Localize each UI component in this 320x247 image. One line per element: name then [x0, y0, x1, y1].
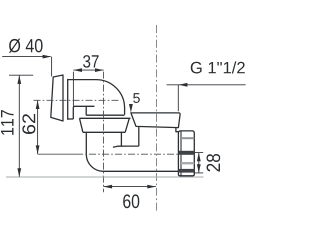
horizontal centerline of inlet pipe — [34, 99, 121, 101]
outlet nut bands — [179, 137, 195, 172]
dark band middle — [179, 151, 195, 155]
label 37 — [83, 55, 99, 68]
dim 117 extension + line — [9, 75, 33, 177]
elbow lower step profile — [73, 106, 94, 119]
dim 28 ticks + line — [194, 153, 203, 173]
vertical tube + bottom U-bend outer + bottom edge — [86, 132, 180, 171]
elbow step vertical — [85, 106, 87, 115]
arrowheads — [43, 55, 52, 59]
horizontal reference line (light) — [6, 176, 204, 178]
dim 60 line — [104, 186, 156, 188]
dim 5 leader — [130, 104, 132, 108]
gray band top — [181, 137, 194, 139]
outlet nut outline — [178, 131, 194, 176]
label 5 — [133, 93, 140, 103]
dim Ø40 leader — [2, 57, 51, 77]
inlet pipe top edge + elbow outer curve + elbow right edge — [68, 80, 125, 115]
union nut N1 (elbow nut) — [80, 118, 131, 132]
light band — [181, 162, 194, 164]
label 62 — [22, 114, 35, 134]
centerlines — [34, 72, 196, 193]
dark band lower — [179, 169, 195, 173]
vertical reference axis (light) — [156, 25, 158, 211]
vertical tube right edge — [120, 132, 122, 146]
dim 62 line — [37, 100, 39, 154]
outlet nut inner vertical — [180, 131, 182, 176]
outlet left cap line — [138, 127, 140, 146]
neck between cup and outlet nut — [176, 128, 179, 132]
label G112 — [191, 61, 245, 73]
horizontal centerline of bottom tube — [38, 153, 76, 155]
dim G leader — [167, 85, 246, 111]
union nut rim line — [86, 114, 124, 116]
flange back edge / pipe end — [67, 79, 69, 120]
bottom tube top edge — [113, 146, 139, 147]
dim 37 line + left extension — [73, 70, 103, 106]
dimension lines — [2, 57, 245, 187]
label 28 — [207, 154, 221, 171]
label 60 — [123, 194, 139, 208]
outlet cup (bell) — [131, 113, 180, 128]
label O40 — [9, 39, 43, 53]
label 117 — [1, 110, 14, 135]
wall flange of inlet (trapezoid plate) — [51, 75, 63, 121]
vertical centerline of elbow tube — [103, 72, 105, 193]
inlet pipe bottom edge — [68, 118, 74, 120]
